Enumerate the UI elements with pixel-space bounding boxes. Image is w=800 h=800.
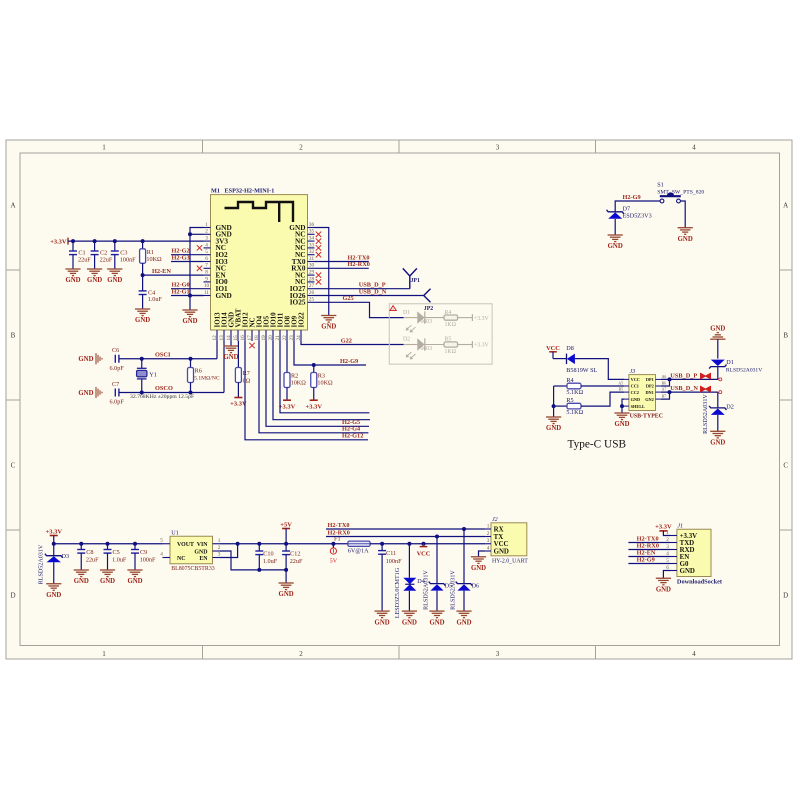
wire H2-G9 (module)	[294, 341, 366, 365]
svg-text:10: 10	[204, 283, 210, 289]
diode D6 ESD	[463, 529, 465, 584]
capacitor C2	[94, 241, 96, 251]
svg-text:Type-C USB: Type-C USB	[568, 438, 627, 450]
svg-text:GND: GND	[65, 277, 80, 284]
J2 pins	[485, 528, 491, 530]
capacitor C4	[142, 275, 144, 291]
svg-text:5: 5	[205, 249, 208, 255]
no-connect X marks on module NC pins	[197, 245, 202, 250]
gnd port left of C6	[95, 353, 97, 364]
svg-text:5: 5	[160, 538, 163, 544]
wire H2-TX0 (J1)	[628, 542, 670, 544]
wire H2-G9 to switch	[615, 201, 660, 212]
power port +3.3V under R3	[310, 399, 318, 401]
power port +3.3V under R2	[283, 399, 291, 401]
svg-text:GND: GND	[456, 619, 471, 626]
wire H2-EN	[143, 274, 204, 276]
svg-text:GND: GND	[429, 619, 444, 626]
diode D4 TVS	[408, 544, 410, 578]
svg-text:A: A	[783, 202, 788, 210]
svg-text:24: 24	[296, 335, 302, 341]
disabled +3.3V	[458, 317, 473, 319]
svg-text:GND: GND	[223, 354, 238, 361]
svg-text:1.0uF: 1.0uF	[263, 558, 278, 565]
svg-text:D6: D6	[472, 583, 480, 590]
svg-text:H2-G12: H2-G12	[342, 433, 363, 440]
svg-text:29: 29	[309, 270, 315, 276]
ground under C3	[107, 268, 122, 270]
svg-text:GND: GND	[78, 390, 93, 397]
svg-text:10KΩ: 10KΩ	[317, 380, 333, 387]
svg-text:H2-G1: H2-G1	[172, 288, 190, 295]
svg-text:C7: C7	[112, 381, 119, 388]
border zone ticks	[202, 140, 204, 153]
svg-text:D2: D2	[403, 337, 410, 343]
svg-text:4: 4	[692, 650, 696, 658]
svg-text:VCC: VCC	[494, 541, 509, 548]
svg-text:+3.3V: +3.3V	[655, 524, 672, 531]
wire OSCI	[119, 358, 217, 360]
svg-text:R5: R5	[445, 337, 452, 343]
svg-text:GND: GND	[546, 425, 561, 432]
wire H2-G4	[259, 341, 368, 433]
svg-text:1.0uF: 1.0uF	[112, 557, 127, 564]
svg-text:D: D	[10, 592, 15, 600]
svg-text:4: 4	[487, 545, 490, 551]
svg-text:C: C	[783, 462, 788, 470]
svg-text:RLSD52A031V: RLSD52A031V	[726, 368, 762, 374]
diode D1 ESD	[717, 339, 719, 358]
svg-text:16: 16	[240, 335, 246, 341]
wire H2-RX0 (uart)	[326, 536, 485, 538]
svg-text:DP1: DP1	[646, 377, 654, 382]
svg-text:H2-EN: H2-EN	[637, 550, 656, 557]
capacitor C5	[107, 544, 109, 550]
wire module pin36 to GND	[315, 228, 329, 316]
svg-text:H2-G9: H2-G9	[637, 557, 655, 564]
wire H2-EN (J1)	[628, 556, 670, 558]
wire G25	[315, 302, 404, 317]
svg-text:D: D	[783, 592, 788, 600]
junction dots on +3.3V rail	[71, 239, 75, 243]
svg-text:2: 2	[487, 531, 490, 537]
power port VCC (bottom)	[420, 546, 428, 548]
svg-text:RX: RX	[494, 526, 504, 533]
wire R4/R5 gnd tie	[553, 386, 555, 417]
svg-text:TX: TX	[494, 534, 504, 541]
disabled resistor R5	[425, 344, 444, 346]
svg-text:C6: C6	[112, 347, 119, 354]
5V connector port	[332, 544, 334, 548]
svg-text:B7: B7	[662, 395, 667, 399]
ground right of module	[321, 315, 336, 317]
svg-text:H2-RX0: H2-RX0	[348, 261, 370, 268]
svg-text:C12: C12	[290, 550, 300, 557]
svg-text:M1: M1	[211, 187, 220, 194]
svg-text:DP2: DP2	[646, 384, 654, 389]
svg-text:5.1MΩ/NC: 5.1MΩ/NC	[194, 376, 220, 382]
svg-text:USB_D_N: USB_D_N	[670, 385, 698, 392]
J1 pins	[670, 535, 677, 537]
svg-text:A: A	[10, 202, 15, 210]
svg-text:D7: D7	[623, 205, 631, 212]
svg-text:EN: EN	[680, 554, 690, 561]
resistor R6	[190, 359, 192, 368]
antenna glyph	[225, 202, 294, 222]
wire 3.3V output rail	[54, 543, 163, 545]
disabled resistor R4	[425, 317, 444, 319]
svg-text:+5V: +5V	[280, 521, 292, 528]
antenna test point JP1	[403, 268, 417, 288]
svg-text:C8: C8	[86, 549, 93, 556]
svg-text:GND: GND	[87, 277, 102, 284]
svg-text:0603: 0603	[421, 346, 433, 352]
ground under D3	[46, 583, 61, 585]
svg-text:6: 6	[205, 256, 208, 262]
svg-text:3: 3	[496, 650, 500, 658]
svg-text:J1: J1	[677, 524, 683, 530]
resistor R3	[313, 365, 315, 373]
svg-text:6.0pF: 6.0pF	[110, 365, 125, 372]
svg-text:36: 36	[309, 222, 315, 228]
svg-text:GND: GND	[107, 277, 122, 284]
ground above D1 (inverted)	[710, 338, 725, 340]
svg-text:D3: D3	[62, 553, 70, 560]
svg-text:VIN: VIN	[197, 542, 209, 548]
svg-text:19: 19	[261, 335, 267, 341]
capacitor C12	[285, 544, 287, 551]
svg-text:G0: G0	[680, 561, 689, 568]
svg-text:30: 30	[309, 263, 315, 269]
ground under C12	[279, 582, 294, 584]
wire VCC rail	[370, 543, 485, 545]
svg-text:IO22: IO22	[298, 312, 306, 328]
capacitor C3	[114, 241, 116, 251]
diode D7 ESD	[607, 210, 624, 214]
svg-text:4: 4	[205, 242, 208, 248]
switch S1	[660, 199, 664, 203]
svg-text:+3.3V: +3.3V	[305, 403, 322, 410]
wire switch to gnd	[680, 201, 685, 228]
disabled LED D1	[404, 317, 418, 319]
svg-text:31: 31	[309, 256, 315, 262]
svg-text:R2: R2	[291, 372, 298, 379]
svg-text:GND: GND	[135, 317, 150, 324]
capacitor C1	[72, 241, 74, 251]
diode D3 ESD	[53, 544, 55, 556]
svg-text:GND: GND	[631, 397, 641, 402]
svg-text:H2-EN: H2-EN	[152, 268, 171, 275]
wire U1 EN tie	[220, 544, 238, 558]
wire USB_D_P (module)	[315, 288, 410, 290]
svg-text:21: 21	[275, 335, 281, 341]
ground under C8	[74, 569, 89, 571]
svg-text:RLSD52A031V: RLSD52A031V	[39, 544, 45, 584]
resistor R2	[286, 341, 288, 373]
svg-text:2: 2	[299, 650, 303, 658]
disabled +3.3V	[458, 344, 473, 346]
J3 pin rows	[624, 378, 629, 380]
svg-text:14: 14	[226, 335, 232, 341]
wire IO10 stub	[273, 341, 370, 420]
svg-text:GND: GND	[678, 236, 693, 243]
svg-text:VCC: VCC	[546, 345, 560, 352]
wire J2 gnd	[479, 551, 486, 557]
svg-text:32.768KHz ±20ppm 12.5pF: 32.768KHz ±20ppm 12.5pF	[130, 394, 194, 400]
svg-text:GN2: GN2	[645, 397, 654, 402]
wire H2-G0	[171, 288, 204, 290]
svg-text:GND: GND	[614, 421, 629, 428]
ground under C9	[127, 569, 142, 571]
power port +3.3V under R7	[234, 397, 242, 399]
svg-text:GND: GND	[608, 243, 623, 250]
svg-text:6.0pF: 6.0pF	[110, 399, 125, 406]
svg-text:DownloadSocket: DownloadSocket	[677, 579, 723, 586]
svg-text:1KΩ: 1KΩ	[445, 322, 457, 328]
svg-text:GND: GND	[216, 291, 232, 300]
wire H2-G3	[171, 261, 204, 263]
ground under C5	[100, 569, 115, 571]
svg-text:5V: 5V	[330, 557, 338, 564]
wire D8 to J3 VCC	[575, 359, 624, 380]
svg-text:GND: GND	[46, 592, 61, 599]
regulator U1 body	[170, 536, 213, 564]
connector J3 USB-TYPEC body	[629, 375, 656, 411]
svg-text:B6: B6	[662, 382, 667, 386]
power port +5V	[282, 528, 290, 530]
svg-text:OSCI: OSCI	[155, 351, 171, 358]
svg-text:OSCO: OSCO	[155, 385, 173, 392]
svg-text:D8: D8	[566, 345, 574, 352]
svg-text:34: 34	[309, 236, 315, 242]
no-ERC marker USB_D_N	[700, 386, 711, 392]
wire G22	[301, 341, 404, 345]
diode D5 ESD	[436, 537, 438, 584]
module right pins 36-25	[308, 227, 315, 229]
svg-text:U1: U1	[171, 530, 179, 537]
svg-text:H2-G4: H2-G4	[342, 426, 361, 433]
svg-text:1: 1	[218, 538, 221, 544]
svg-text:B5819W SL: B5819W SL	[566, 367, 597, 374]
svg-text:5.1KΩ: 5.1KΩ	[566, 409, 583, 416]
svg-text:0Ω: 0Ω	[243, 377, 251, 384]
wire H2-G12	[245, 341, 368, 440]
capacitor C11	[381, 544, 383, 551]
svg-text:GND: GND	[194, 549, 207, 555]
svg-text:100nF: 100nF	[140, 557, 156, 564]
svg-text:B: B	[783, 332, 788, 340]
svg-text:GND: GND	[182, 318, 197, 325]
connector J2 body	[491, 523, 527, 556]
wire H2-G2	[171, 254, 204, 256]
wire H2-G1	[171, 295, 204, 297]
capacitor C6	[114, 355, 116, 363]
wire OSCO to pin13	[223, 341, 225, 393]
svg-text:3: 3	[218, 552, 221, 558]
svg-text:C11: C11	[386, 550, 396, 557]
svg-text:DN1: DN1	[645, 390, 653, 395]
wire IO11 stub	[280, 341, 369, 413]
wire USB_D_N (type-c)	[661, 391, 718, 393]
wire U1 GND	[220, 551, 286, 570]
svg-text:H2-G9: H2-G9	[623, 194, 641, 201]
svg-text:2: 2	[299, 144, 303, 152]
disabled block frame	[389, 304, 492, 364]
ground under D7	[608, 234, 623, 236]
svg-text:+3.3V: +3.3V	[474, 343, 490, 349]
svg-text:32: 32	[309, 249, 315, 255]
capacitor C10	[258, 544, 260, 551]
svg-text:J2: J2	[492, 517, 498, 523]
svg-text:USB-TYPEC: USB-TYPEC	[630, 414, 663, 420]
wire +3.3V rail	[68, 240, 204, 242]
svg-text:C10: C10	[263, 550, 273, 557]
svg-text:A5: A5	[618, 382, 623, 386]
svg-text:18: 18	[254, 335, 260, 341]
antenna test point JP2	[424, 289, 431, 303]
svg-text:0603: 0603	[421, 319, 433, 325]
svg-text:3: 3	[487, 538, 490, 544]
svg-text:USB_D_N: USB_D_N	[359, 288, 387, 295]
svg-text:GND: GND	[321, 324, 336, 331]
svg-text:27: 27	[309, 283, 315, 289]
no-ERC marker USB_D_P	[700, 373, 711, 379]
svg-text:28: 28	[309, 276, 315, 282]
svg-text:VCC: VCC	[417, 551, 431, 558]
module M1 body	[211, 195, 308, 330]
wire J1 gnd	[663, 571, 670, 579]
svg-text:22uF: 22uF	[100, 256, 113, 263]
ground under R4/R5	[546, 416, 561, 418]
svg-text:GND: GND	[471, 565, 486, 572]
svg-text:4: 4	[160, 551, 163, 557]
svg-text:Y1: Y1	[149, 372, 157, 379]
ground under C4	[135, 308, 150, 310]
svg-text:3: 3	[205, 236, 208, 242]
svg-text:GND: GND	[279, 591, 294, 598]
wire USB_D_N (module)	[315, 295, 424, 297]
svg-text:22uF: 22uF	[86, 557, 99, 564]
wire H2-TX0 (uart)	[326, 528, 485, 530]
ground under D5	[429, 610, 444, 612]
svg-text:+3.3V: +3.3V	[45, 528, 62, 535]
svg-text:IO25: IO25	[290, 298, 306, 307]
disabled LED D2	[404, 344, 418, 346]
svg-text:+3.3V: +3.3V	[680, 533, 698, 540]
wire H2-G5	[266, 341, 369, 426]
svg-text:R4: R4	[566, 377, 573, 384]
svg-text:B: B	[11, 332, 16, 340]
svg-text:33: 33	[309, 242, 315, 248]
svg-text:H2-G9: H2-G9	[340, 358, 358, 365]
svg-text:11: 11	[204, 290, 209, 296]
svg-text:H2-G3: H2-G3	[172, 254, 190, 261]
resistor R1	[142, 241, 144, 249]
svg-text:D1: D1	[403, 310, 410, 316]
svg-text:G25: G25	[343, 295, 354, 302]
svg-text:ESD5Z3V3: ESD5Z3V3	[623, 212, 652, 219]
svg-text:100nF: 100nF	[120, 256, 136, 263]
svg-text:7: 7	[205, 263, 208, 269]
svg-text:TXD: TXD	[680, 540, 695, 547]
svg-text:RXD: RXD	[680, 547, 695, 554]
svg-text:H2-TX0: H2-TX0	[328, 522, 350, 529]
svg-text:R7: R7	[243, 370, 250, 377]
compile-mask warning triangle	[390, 306, 396, 311]
capacitor C7	[114, 389, 116, 397]
svg-text:13: 13	[219, 335, 225, 341]
svg-text:15: 15	[233, 335, 239, 341]
svg-text:100nF: 100nF	[386, 558, 402, 565]
svg-text:VOUT: VOUT	[177, 542, 194, 548]
svg-text:2: 2	[218, 545, 221, 551]
svg-text:HY-2.0_UART: HY-2.0_UART	[492, 559, 528, 565]
svg-text:JP1: JP1	[411, 278, 420, 284]
wire H2-RX0 (module)	[315, 267, 369, 269]
svg-text:RLSD52A031V: RLSD52A031V	[703, 394, 709, 434]
svg-text:10KΩ: 10KΩ	[291, 380, 307, 387]
svg-text:GND: GND	[74, 578, 89, 585]
svg-text:B5: B5	[619, 388, 624, 392]
svg-text:H2-RX0: H2-RX0	[637, 543, 659, 550]
svg-text:26: 26	[309, 290, 315, 296]
wire H2-RX0 (J1)	[628, 549, 670, 551]
ground under D6	[456, 610, 471, 612]
svg-text:D2: D2	[726, 404, 734, 411]
capacitor C8	[80, 544, 82, 550]
svg-text:R6: R6	[195, 367, 202, 374]
svg-text:10KΩ: 10KΩ	[146, 256, 162, 263]
svg-text:GND: GND	[402, 619, 417, 626]
wire module left GND bus	[190, 228, 204, 311]
module left pins 1-11	[204, 227, 211, 229]
svg-text:20: 20	[268, 335, 274, 341]
svg-text:23: 23	[289, 335, 295, 341]
crystal Y1	[141, 359, 143, 369]
svg-text:LESD3Z5.0CMT1G: LESD3Z5.0CMT1G	[395, 567, 401, 618]
ground under D4	[402, 610, 417, 612]
svg-text:GND: GND	[710, 440, 725, 447]
svg-text:35: 35	[309, 229, 315, 235]
svg-text:9: 9	[205, 276, 208, 282]
wire USB_D_P (type-c)	[661, 378, 718, 380]
resistor R7 (VBAT)	[237, 341, 239, 368]
ground under switch	[678, 227, 693, 229]
svg-text:JP2: JP2	[424, 306, 433, 312]
svg-text:CC2: CC2	[631, 390, 639, 395]
svg-text:NC: NC	[177, 556, 186, 562]
svg-text:5.1KΩ: 5.1KΩ	[566, 389, 583, 396]
svg-text:25: 25	[309, 297, 315, 303]
svg-text:RLSD52A031V: RLSD52A031V	[423, 570, 429, 610]
svg-text:3: 3	[496, 144, 500, 152]
svg-text:SMT_SW_PTS_820: SMT_SW_PTS_820	[657, 190, 704, 196]
svg-text:GND: GND	[100, 578, 115, 585]
svg-text:GND: GND	[494, 548, 509, 555]
svg-text:8: 8	[205, 270, 208, 276]
ground under J2	[471, 556, 486, 558]
svg-text:C9: C9	[140, 549, 147, 556]
power port +3.3V (bottom-left)	[50, 535, 58, 537]
svg-text:+3.3V: +3.3V	[279, 403, 296, 410]
U1 pins	[163, 543, 171, 545]
ground under J3	[614, 412, 629, 414]
svg-text:BL8075CB5TR33: BL8075CB5TR33	[171, 566, 215, 572]
svg-text:4: 4	[692, 144, 696, 152]
ground under C2	[87, 268, 102, 270]
svg-text:R3: R3	[318, 372, 325, 379]
svg-text:22uF: 22uF	[290, 558, 303, 565]
